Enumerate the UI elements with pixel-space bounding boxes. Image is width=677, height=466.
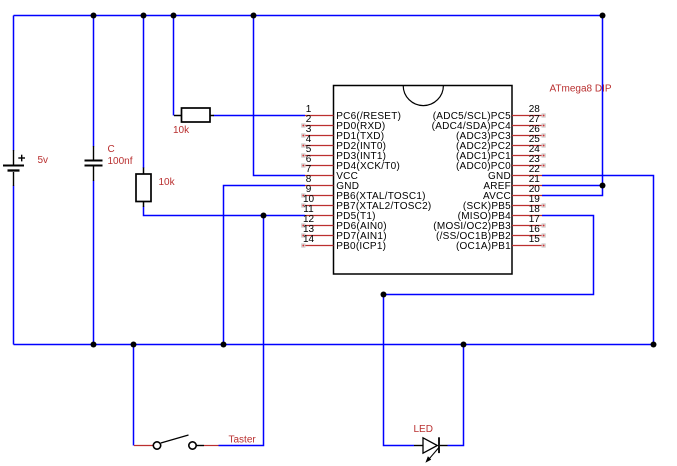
wire capacitor to bottom rail	[93, 181, 95, 345]
pin 3 PD1(TXD)	[302, 124, 385, 142]
svg-text:Taster: Taster	[229, 435, 257, 446]
junction dot top rail right corner	[600, 13, 606, 19]
wire VCC feed to pin7	[254, 16, 306, 176]
resistor R1 10k horizontal	[174, 108, 214, 122]
svg-text:ATmega8 DIP: ATmega8 DIP	[550, 84, 612, 95]
junction dot top rail at R1	[171, 13, 177, 19]
svg-text:10k: 10k	[173, 125, 190, 136]
wire left vertical battery bottom	[13, 186, 15, 345]
junction dot PB4 corner	[381, 292, 387, 298]
junction dot bottom rail at capacitor	[91, 342, 97, 348]
svg-text:5v: 5v	[38, 155, 49, 166]
pin 15 (OC1A)PB1	[456, 234, 545, 252]
wire resistor R2 feed	[143, 16, 145, 169]
wire resistor R1 feed	[173, 16, 175, 116]
pin 21 AREF	[483, 174, 542, 192]
pin 11 PD5(T1)	[303, 204, 375, 222]
svg-text:15: 15	[529, 234, 541, 245]
wire capacitor feed	[93, 16, 95, 147]
LED D1	[414, 437, 448, 463]
pin 19 (SCK)PB5	[463, 194, 545, 212]
junction dot bottom rail at taster	[131, 342, 137, 348]
wire LED cathode to bottom rail	[448, 345, 464, 446]
wire R1 to pin1 RESET	[214, 115, 306, 117]
svg-text:100nf: 100nf	[108, 156, 133, 167]
pin 14 PB0(ICP1)	[302, 234, 387, 252]
pin 12 PD6(AIN0)	[302, 214, 387, 232]
resistor R2 10k vertical	[136, 168, 151, 208]
junction dot pin11 net taster branch	[261, 213, 267, 219]
pin 27 (ADC4/SDA)PC4	[432, 114, 546, 132]
svg-text:PB0(ICP1): PB0(ICP1)	[336, 241, 386, 252]
pin 26 (ADC3)PC3	[456, 124, 545, 142]
wire left vertical battery top	[13, 16, 15, 151]
wire pin21 AREF	[542, 185, 603, 187]
svg-text:14: 14	[303, 234, 315, 245]
pin 13 PD7(AIN1)	[302, 224, 387, 242]
svg-text:LED: LED	[414, 424, 433, 435]
pin 17 (MOSI/OC2)PB3	[433, 214, 545, 232]
wire pin18 PB4 to LED anode	[384, 216, 594, 446]
wire pin20 AVCC up to top rail	[542, 16, 603, 196]
wire taster right to pin11 net	[219, 216, 264, 446]
svg-text:C: C	[108, 144, 115, 155]
wire bottom rail	[14, 344, 654, 346]
junction dot bottom rail at pin8 GND	[221, 342, 227, 348]
pin 4 PD2(INT0)	[302, 134, 387, 152]
wire pin22 GND to right vertical	[542, 176, 654, 345]
junction dot top rail at capacitor	[91, 13, 97, 19]
pin 16 (/SS/OC1B)PB2	[436, 224, 545, 242]
wire taster left leg	[133, 345, 135, 446]
pin 7 VCC	[305, 164, 358, 182]
junction dot top rail at R2	[141, 13, 147, 19]
pin 8 GND	[305, 174, 359, 192]
junction dot AREF branch	[600, 183, 606, 189]
pin 5 PD3(INT1)	[302, 144, 387, 162]
pin 2 PD0(RXD)	[302, 114, 386, 132]
IC U1 ATmega8 body	[334, 86, 513, 275]
pin 23 (ADC0)PC0	[456, 154, 545, 172]
junction dot top rail at VCC feed	[251, 13, 257, 19]
wire R2 bottom to pin11 net	[144, 207, 306, 216]
pin 9 PB6(XTAL/TOSC1)	[302, 184, 426, 202]
battery B1 5v	[3, 150, 25, 186]
switch S1 taster	[134, 435, 219, 449]
pin 6 PD4(XCK/T0)	[302, 154, 400, 172]
wire top rail	[14, 15, 603, 17]
svg-text:(OC1A)PB1: (OC1A)PB1	[456, 241, 511, 252]
pin 10 PB7(XTAL2/TOSC2)	[302, 194, 432, 212]
svg-text:10k: 10k	[159, 177, 176, 188]
pin 25 (ADC2)PC2	[456, 134, 545, 152]
pin 18 (MISO)PB4	[458, 204, 542, 222]
pin 28 (ADC5/SCL)PC5	[433, 104, 546, 122]
junction dot bottom rail at LED cathode	[461, 342, 467, 348]
pin 22 GND	[488, 164, 542, 182]
wire pin8 GND to bottom rail	[224, 186, 306, 345]
junction dot bottom rail right corner	[651, 342, 657, 348]
pin 20 AVCC	[483, 184, 542, 202]
pin 1 PC6(/RESET)	[305, 104, 401, 122]
pin 24 (ADC1)PC1	[456, 144, 545, 162]
capacitor C 100nf	[85, 146, 103, 181]
